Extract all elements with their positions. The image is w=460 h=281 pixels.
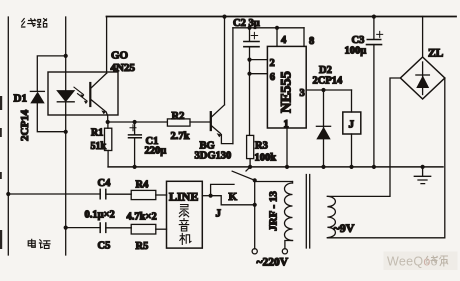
wire top supply rail (107, 16, 457, 18)
transformer T1 primary winding (285, 183, 293, 241)
transistor BG base bar (210, 112, 212, 130)
wire D1 bottom jog (37, 103, 65, 132)
junction dot C2 top (247, 26, 251, 30)
junction dot J-rail (349, 165, 353, 169)
svg-text:0.1μ×2: 0.1μ×2 (85, 210, 115, 221)
wire emitter node to R2 (108, 121, 168, 123)
wire opto collector to rail (106, 17, 108, 74)
scan noise left edge (0, 96, 2, 249)
svg-text:3DG130: 3DG130 (195, 151, 232, 162)
resistor R1 (107, 122, 109, 128)
junction dot R3-rail (248, 165, 252, 169)
resistor R4 (131, 190, 156, 199)
node phone line B (线路 right wire, upper segment to LED) (65, 17, 67, 91)
svg-text:51k: 51k (91, 141, 107, 152)
wire D1 branch top jog (37, 56, 65, 91)
svg-text:100μ: 100μ (345, 46, 367, 57)
wire 555 supply branch vertical (232, 28, 234, 144)
label 录音机 (recorder, vertical) (179, 205, 191, 245)
optocoupler GO 4N25 box (48, 72, 118, 115)
junction dot pin4 lead (275, 26, 279, 30)
svg-text:C4: C4 (98, 178, 112, 189)
bridge rectifier ZL (422, 17, 424, 58)
svg-text:R3: R3 (255, 141, 268, 152)
svg-text:1: 1 (284, 119, 289, 130)
svg-text:2: 2 (270, 58, 275, 69)
C2 plus sign (251, 32, 257, 38)
junction dot K pivot (253, 178, 257, 182)
junction dot bridge-rail (421, 165, 425, 169)
svg-text:NE555: NE555 (279, 71, 295, 113)
svg-text:LINE: LINE (169, 190, 198, 204)
transformer core (306, 175, 309, 249)
node phone line A (线路 left wire) (7, 17, 9, 255)
wire pin4 lead (276, 28, 278, 47)
resistor R2 (167, 119, 190, 126)
wire K pivot down to mains terminal (254, 180, 256, 249)
svg-text:2CP14: 2CP14 (19, 109, 31, 141)
svg-text:2.7k: 2.7k (171, 131, 190, 142)
wire pin2 (250, 59, 268, 61)
svg-text:J: J (216, 208, 222, 220)
junction dot C1-rail (133, 165, 137, 169)
capacitor C4 (8, 193, 100, 195)
resistor R5 (131, 224, 156, 234)
junction dot C1 top (133, 120, 137, 124)
svg-text:2CP14: 2CP14 (313, 76, 343, 87)
wire bridge left arm (327, 78, 400, 196)
junction dot 220V tap (253, 203, 257, 207)
svg-text:C5: C5 (98, 241, 111, 252)
svg-text:D2: D2 (319, 65, 332, 76)
svg-text:C3: C3 (352, 35, 365, 46)
transistor BG collector (212, 17, 225, 118)
terminal circle left (252, 249, 257, 254)
wire pin3 (306, 89, 351, 91)
svg-text:ZL: ZL (428, 48, 444, 60)
wire pins 4-8 top bus (233, 27, 304, 29)
junction dot pin3/D2 (321, 88, 325, 92)
svg-text:~220V: ~220V (257, 257, 289, 269)
recorder box LINE 录音机 (167, 181, 203, 248)
transformer secondary winding (327, 196, 335, 237)
svg-text:6: 6 (270, 72, 275, 83)
junction dot line A / C4 tap (6, 192, 10, 196)
svg-text:100k: 100k (255, 153, 277, 164)
svg-text:K: K (229, 191, 238, 203)
svg-text:GO: GO (111, 50, 129, 62)
wire LINE box to J contact (202, 195, 210, 197)
label 电话 (telephone) (28, 239, 50, 248)
opto light arrows (74, 87, 87, 101)
relay coil J (351, 90, 353, 112)
wire pin6 (250, 73, 268, 75)
junction dot pin6 (247, 72, 251, 76)
watermark WeeQoo (384, 252, 458, 271)
junction dot collector-rail (222, 15, 226, 19)
label 线路 (line) (22, 19, 47, 28)
wire ground rail (108, 166, 443, 168)
svg-text:R4: R4 (136, 180, 150, 191)
wire pin8 lead (303, 28, 305, 47)
junction dot C3-rail (372, 165, 376, 169)
svg-text:R1: R1 (91, 128, 103, 139)
svg-text:4N25: 4N25 (111, 62, 136, 74)
svg-text:C2 3μ: C2 3μ (233, 18, 260, 29)
junction dot D2-rail (321, 165, 325, 169)
svg-text:J: J (349, 119, 355, 131)
opto LED on line B (57, 91, 74, 102)
junction dot J contact (209, 194, 213, 198)
wire J contact lower path (211, 196, 255, 205)
svg-text:WeeQoo: WeeQoo (387, 255, 438, 269)
diode D1 (30, 90, 44, 92)
svg-text:4: 4 (281, 35, 287, 46)
diode D2 (323, 90, 325, 167)
svg-text:8: 8 (309, 36, 314, 47)
junction dot line B / C5 tap (64, 226, 68, 230)
wire K pivot to transformer primary (255, 181, 293, 183)
switch K blade (246, 167, 250, 171)
svg-text:R2: R2 (172, 111, 185, 122)
C1 plus sign (130, 125, 136, 131)
svg-text:220μ: 220μ (145, 146, 167, 157)
junction dot line B / D1 bottom (64, 130, 68, 134)
svg-text:3: 3 (300, 88, 305, 99)
junction dot emitter node (106, 120, 110, 124)
svg-text:JRF - 13: JRF - 13 (268, 191, 280, 231)
capacitor C1 (134, 122, 136, 135)
terminal circle right (282, 249, 287, 254)
C3 plus sign (377, 31, 383, 37)
svg-text:4.7k×2: 4.7k×2 (127, 212, 157, 223)
wire J contact upper finger (211, 184, 234, 195)
capacitor C2 (249, 28, 251, 42)
ground symbol (414, 167, 430, 184)
resistor R3 (247, 135, 254, 158)
svg-text:R5: R5 (136, 241, 149, 252)
svg-text:D1: D1 (14, 93, 27, 105)
junction dot B-D1 top (64, 54, 68, 58)
transistor BG emitter (212, 126, 221, 134)
capacitor C3 (373, 17, 375, 40)
capacitor C5 (66, 227, 101, 229)
opto phototransistor (89, 83, 91, 106)
op IC U1 NE555 box (267, 46, 306, 128)
wire pin1 to rail (286, 128, 288, 167)
junction dot pin2 (247, 58, 251, 62)
junction dot pin1-rail (285, 165, 289, 169)
svg-text:~9V: ~9V (334, 221, 355, 235)
junction dot C3 top (372, 15, 376, 19)
wire bridge right arm (327, 78, 444, 238)
